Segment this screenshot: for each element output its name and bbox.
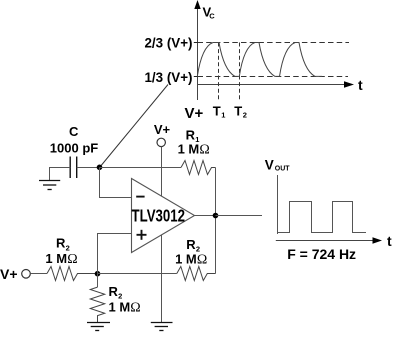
- dashed line T1: [218, 43, 220, 101]
- resistor R2c vertical zigzag: [90, 287, 104, 323]
- op-amp U1 triangle: [132, 179, 195, 253]
- wire node to inverting input: [100, 168, 132, 198]
- tick 1/3 level: [194, 76, 198, 78]
- label R2b: [186, 237, 200, 254]
- svg-text:V: V: [265, 158, 274, 173]
- svg-text:Ω: Ω: [130, 301, 140, 316]
- label T1: [213, 104, 226, 120]
- capacitor C1 plates: [70, 157, 77, 179]
- wire output stub: [216, 215, 263, 217]
- wire op-amp V- pin to ground: [161, 235, 163, 323]
- wire right rail R1 to R2 through output node: [215, 168, 217, 274]
- graph Vc t-axis: [197, 81, 354, 87]
- svg-text:TLV3012: TLV3012: [132, 205, 186, 225]
- ground (R2c): [87, 323, 110, 331]
- label R2c: [109, 284, 123, 301]
- wire V+ supply to op-amp: [161, 147, 163, 197]
- ground (capacitor): [39, 181, 60, 190]
- wire junction to non-inverting input: [98, 234, 132, 274]
- svg-text:C: C: [209, 12, 215, 21]
- svg-text:T: T: [234, 104, 242, 119]
- svg-text:F = 724 Hz: F = 724 Hz: [287, 246, 356, 262]
- dashed line T2: [239, 43, 241, 101]
- svg-text:1: 1: [221, 110, 225, 119]
- svg-text:1 M: 1 M: [178, 141, 200, 156]
- wire junction to R2b: [98, 273, 177, 275]
- label Vout: [265, 158, 291, 173]
- svg-text:1 M: 1 M: [109, 300, 131, 315]
- svg-text:R: R: [186, 237, 196, 252]
- ground (op-amp V-): [151, 323, 173, 331]
- node output: [213, 213, 219, 219]
- wire V+ terminal to R2a: [30, 273, 47, 275]
- wire capacitor to node: [77, 167, 100, 169]
- capacitor C label: [50, 124, 98, 155]
- svg-text:2/3 (V+): 2/3 (V+): [144, 35, 192, 50]
- svg-text:1000 pF: 1000 pF: [50, 140, 98, 155]
- svg-text:R: R: [109, 284, 119, 299]
- wire op-amp output: [195, 215, 216, 217]
- label T2: [234, 104, 247, 120]
- op-amp minus sign: [136, 196, 144, 198]
- graph Vc y-axis: [194, 0, 200, 100]
- svg-text:R: R: [56, 235, 66, 250]
- label R1: [186, 128, 200, 144]
- graph Vout y-axis: [277, 175, 279, 234]
- svg-text:V+: V+: [0, 266, 18, 282]
- resistor R2b zigzag: [177, 267, 216, 281]
- op-amp plus sign: [137, 230, 147, 240]
- svg-text:1 M: 1 M: [45, 251, 67, 266]
- wire junction to R2c: [97, 274, 99, 288]
- node capacitor junction: [97, 165, 103, 171]
- svg-text:t: t: [387, 233, 392, 249]
- svg-text:Ω: Ω: [197, 252, 207, 267]
- svg-text:Ω: Ω: [67, 252, 77, 267]
- graph Vout t-axis: [276, 237, 382, 243]
- Vout square wave: [278, 202, 367, 233]
- dashed line 2/3 (V+) level: [198, 42, 350, 44]
- svg-text:t: t: [358, 77, 363, 93]
- resistor R2a zigzag: [47, 267, 98, 281]
- terminal V+ input circle: [22, 270, 31, 279]
- svg-text:C: C: [69, 124, 79, 139]
- terminal V+ supply circle: [157, 138, 165, 146]
- svg-text:1 M: 1 M: [175, 251, 197, 266]
- resistor R1 zigzag: [181, 161, 216, 175]
- wire node to R1: [100, 167, 182, 169]
- tick 2/3 level: [194, 42, 198, 44]
- graph Vc y-axis label Vc: [203, 5, 216, 21]
- wire capacitor left to ground: [50, 168, 71, 181]
- leader line from capacitor node to graph: [100, 85, 169, 168]
- Vc waveform: [197, 43, 322, 77]
- svg-text:V+: V+: [185, 105, 204, 122]
- svg-text:Ω: Ω: [199, 142, 209, 157]
- node plus junction: [95, 271, 101, 277]
- svg-text:T: T: [213, 104, 221, 119]
- svg-text:OUT: OUT: [275, 166, 291, 173]
- svg-text:2: 2: [243, 110, 247, 119]
- label R2a: [56, 235, 70, 252]
- svg-text:1/3 (V+): 1/3 (V+): [144, 70, 192, 85]
- dashed line 1/3 (V+) level: [198, 76, 349, 78]
- svg-text:V+: V+: [154, 122, 171, 137]
